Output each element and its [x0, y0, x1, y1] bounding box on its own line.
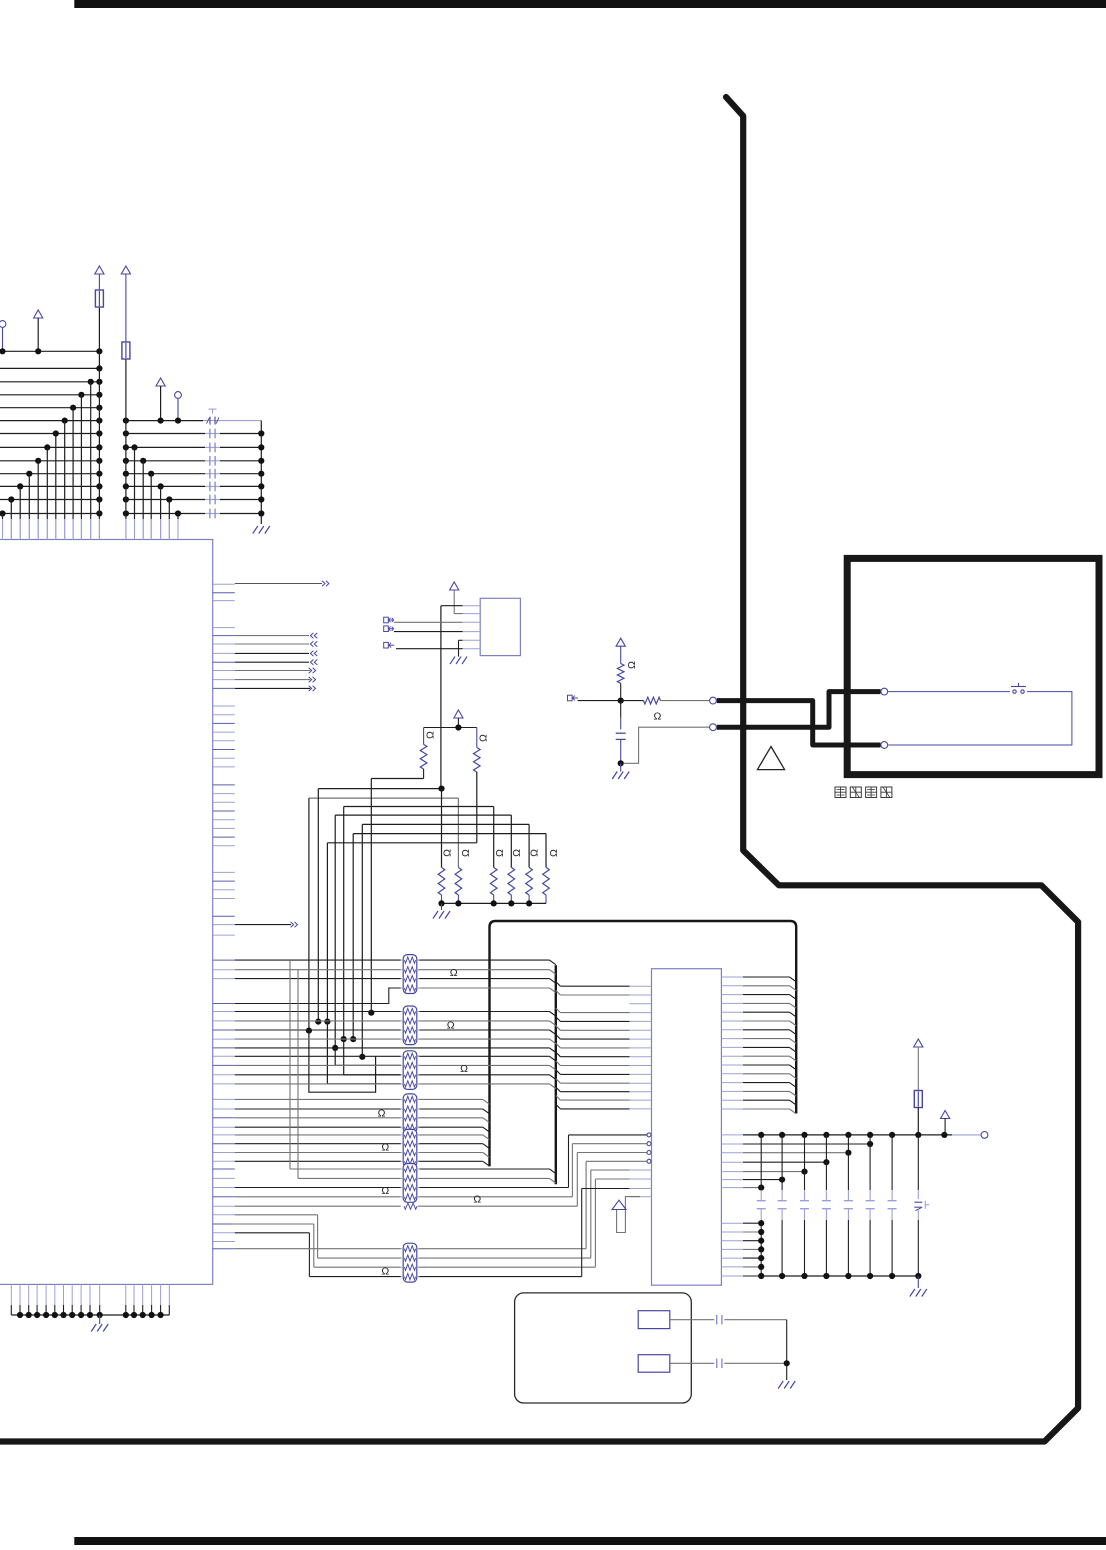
IC U1 — [0, 540, 213, 1285]
svg-text:Ω: Ω — [460, 849, 472, 857]
thick wire cross 1 — [717, 701, 881, 745]
resistor R12 — [235, 1194, 578, 1210]
power triangle VCC4 — [156, 378, 165, 424]
power triangle VCC1 — [95, 266, 104, 274]
IC U1 top pin stubs — [3, 519, 179, 540]
resistor pack RP6 — [401, 1164, 420, 1203]
riser r4 — [586, 1161, 647, 1248]
ground rail resistor row — [438, 900, 546, 906]
label RP1 — [450, 967, 458, 979]
ESD diode D1 on row B1 — [207, 409, 220, 425]
cap bank bottom junctions — [758, 1273, 921, 1279]
ground G3 — [450, 657, 467, 665]
flag F3 — [384, 642, 395, 648]
resistor pack RP7 — [401, 1243, 420, 1282]
wire cap to gnd node — [618, 739, 624, 766]
wire node to cap — [620, 701, 622, 730]
resistor R11 — [644, 697, 662, 722]
wire U3 pin5 to ground — [459, 640, 463, 656]
capacitor C8 — [616, 733, 626, 739]
label RP7 — [381, 1266, 389, 1278]
label kanji note — [835, 787, 892, 798]
wire R11 to pin — [661, 700, 710, 702]
node A junction — [438, 786, 444, 792]
IC U1 bottom pin stubs — [11, 1284, 169, 1315]
svg-text:Ω: Ω — [442, 849, 454, 857]
capacitor bank C9-C15 — [757, 1135, 897, 1276]
wire detour A — [309, 1031, 376, 1093]
staircase drops group B — [131, 444, 181, 539]
svg-text:Ω: Ω — [511, 849, 523, 857]
bus line B2 — [555, 965, 557, 1184]
bus line B1 — [490, 921, 797, 1166]
wire R10 to node — [618, 683, 624, 703]
wire R11 left — [621, 700, 644, 702]
resistor pack RP4 — [401, 1094, 420, 1133]
wire bundle U1 to RP1-RP3 to bus — [235, 960, 556, 1088]
wire U1 jog b — [235, 1224, 401, 1267]
wire out B with chevron — [235, 922, 298, 927]
wire RP7 line3 out — [418, 1266, 596, 1268]
crystal module box — [515, 1293, 692, 1403]
wire bundle U1 RP4 RP5 to bus B1 — [235, 1099, 490, 1166]
right rail of group B — [260, 421, 262, 524]
crystal element X1 — [638, 1311, 670, 1329]
wire crystal caps join — [784, 1320, 790, 1380]
wire bus group A horizontals — [0, 351, 99, 513]
wire staircase U2 to cap bank — [721, 1141, 873, 1191]
wire RP7 line2 out — [418, 1257, 591, 1259]
connector pin CN2-1 — [881, 688, 888, 695]
wire bus w1-w8 — [309, 779, 546, 868]
staircase drops group A — [0, 379, 94, 540]
label RP3 — [460, 1063, 468, 1075]
svg-text:Ω: Ω — [425, 731, 437, 739]
wire row 1047.9 — [235, 1048, 556, 1053]
junctions on vertical rail x126 — [123, 418, 129, 517]
wire RP6 line3 — [235, 1187, 569, 1189]
wire RP6 lines12 to bus — [418, 1169, 556, 1183]
crystal element X2 — [638, 1355, 670, 1373]
wire flag3 — [396, 648, 463, 650]
riser r3 — [577, 1153, 647, 1207]
wire pullup rail — [424, 727, 477, 729]
resistor R1 — [420, 728, 436, 770]
riser r2 — [572, 1144, 646, 1197]
IC U2 — [652, 969, 722, 1285]
wire R1 bottom to bus w1 — [423, 769, 425, 779]
ground rail junctions — [17, 1312, 164, 1318]
ground G1 — [253, 526, 270, 534]
cap bank top rail — [721, 1134, 980, 1136]
svg-text:Ω: Ω — [381, 1185, 389, 1197]
label RP4 — [378, 1107, 386, 1119]
svg-text:Ω: Ω — [478, 734, 490, 742]
wire U1 to RP7 line1 — [235, 1248, 401, 1250]
power VCC9 with bead — [914, 1039, 923, 1135]
thick outline box — [847, 558, 1099, 774]
wire out A with chevron — [235, 581, 329, 586]
junctions right rail — [258, 430, 264, 516]
resistor row labels — [442, 849, 560, 857]
connector stub circle P1 — [0, 321, 6, 352]
IC U2 lower left stubs — [630, 1170, 652, 1197]
ground G6 — [910, 1276, 927, 1297]
resistor R10 — [617, 661, 637, 683]
connector pin CN2-2 — [881, 742, 888, 749]
junction dots row1 — [0, 348, 41, 354]
permutation verticals with junctions — [306, 779, 375, 1060]
wire bundle U2 lower to cap rail — [721, 1220, 764, 1276]
power triangle VCC7 — [616, 638, 625, 663]
wire U3 pin1 — [441, 605, 463, 607]
power rail VCC3 top — [125, 274, 127, 421]
wire U1 jog a — [235, 1215, 401, 1258]
wire flag1 — [394, 621, 463, 623]
power triangle VCC5 — [450, 582, 463, 614]
wire switch loop — [888, 692, 1072, 745]
wire vertical to node A — [440, 606, 442, 789]
resistor pack RP1 — [401, 955, 420, 994]
ESD diode D2 — [914, 1135, 929, 1276]
wire U1 jog c — [235, 1233, 401, 1277]
IC U3 — [480, 598, 520, 655]
cap bank top junctions — [758, 1132, 947, 1138]
warning triangle — [757, 747, 784, 770]
power triangle VCC8 — [941, 1111, 950, 1135]
connector pin CN1-2 — [710, 724, 717, 731]
svg-text:Ω: Ω — [378, 1107, 386, 1119]
svg-text:Ω: Ω — [381, 1142, 389, 1154]
resistor pack RP2 — [401, 1006, 420, 1045]
riser r6 — [595, 1179, 629, 1267]
wire detour B — [327, 1022, 400, 1084]
ground G4 — [433, 903, 450, 918]
ground G2 — [91, 1315, 108, 1332]
wire RP6 line4 — [235, 1196, 573, 1198]
IC U2 bubble pins — [647, 1133, 651, 1163]
label RP6 — [381, 1185, 389, 1197]
svg-text:Ω: Ω — [447, 1020, 455, 1032]
ferrite bead FB2 — [122, 342, 130, 359]
wire bundle U2 right to bus B1 — [721, 977, 796, 1114]
ground G7 — [778, 1381, 795, 1389]
capacitor C17 — [670, 1359, 787, 1369]
svg-text:Ω: Ω — [494, 849, 506, 857]
thick wire cross 2 — [717, 692, 881, 728]
svg-text:Ω: Ω — [626, 661, 638, 669]
IC U1 right pin stubs — [213, 584, 235, 1248]
wire long vertical LV2 — [298, 970, 401, 1179]
wire detour C — [344, 1039, 401, 1075]
power rail VCC1 top — [98, 274, 100, 351]
wire gnd node to pin2 — [624, 727, 710, 763]
resistor pack RP5 — [401, 1129, 420, 1166]
flag F2 — [384, 626, 394, 632]
power triangle VCC3 — [121, 266, 130, 274]
riser r5 — [591, 1170, 630, 1258]
svg-text:Ω: Ω — [460, 1063, 468, 1075]
svg-text:Ω: Ω — [548, 849, 560, 857]
wire bundle bus to U2 left pins — [556, 982, 652, 1109]
wire vertical rail x126 lower — [125, 421, 127, 540]
wire bundle with chevrons — [235, 633, 317, 691]
riser r7 — [582, 1189, 630, 1277]
capacitor C16 — [670, 1315, 787, 1325]
wire RP7 line4 out — [418, 1276, 582, 1278]
ground G5 — [612, 763, 629, 779]
svg-text:Ω: Ω — [450, 967, 458, 979]
resistor R2 — [474, 728, 490, 773]
ferrite bead FB1 — [95, 290, 103, 307]
ground rail bottom — [11, 1314, 169, 1316]
svg-text:Ω: Ω — [381, 1266, 389, 1278]
capacitor column C1-C7 — [210, 429, 215, 519]
top border bar — [74, 0, 1106, 8]
wire bus group B horizontals — [126, 421, 261, 514]
bottom border bar — [74, 1537, 1106, 1545]
flag F4 — [568, 695, 579, 701]
resistor row R3-R9 — [438, 867, 549, 903]
label RP5 — [381, 1142, 389, 1154]
wire flag2 — [394, 631, 463, 633]
wire R2 chain — [476, 772, 478, 843]
IC U3 left pin stubs — [463, 606, 481, 649]
connector pin CN1-1 — [710, 697, 717, 704]
wire long vertical LV1 — [290, 960, 401, 1169]
power triangle VCC2 on row1 — [34, 310, 43, 351]
cap bank bottom rail — [761, 1275, 918, 1277]
flag F1 — [384, 617, 394, 623]
resistor pack RP3 — [401, 1051, 420, 1090]
switch SW1 — [1011, 683, 1026, 693]
power triangle VCC6 — [454, 710, 463, 731]
junctions on vertical rail x99 — [96, 348, 102, 516]
riser r1 — [569, 1135, 647, 1188]
connector stub circle P3 — [981, 1132, 988, 1139]
label RP2 — [447, 1020, 455, 1032]
wire RP7 line1 out — [418, 1248, 586, 1250]
wire flag4 — [578, 700, 621, 702]
wire vertical rail x99 lower — [98, 351, 100, 539]
wire R3 top drop — [441, 789, 443, 868]
svg-text:Ω: Ω — [473, 1194, 481, 1206]
power arrow flag — [612, 1197, 640, 1233]
svg-text:Ω: Ω — [653, 711, 661, 723]
connector stub circle P2 — [175, 392, 182, 424]
wire detour D — [335, 1048, 401, 1066]
svg-text:Ω: Ω — [529, 849, 541, 857]
